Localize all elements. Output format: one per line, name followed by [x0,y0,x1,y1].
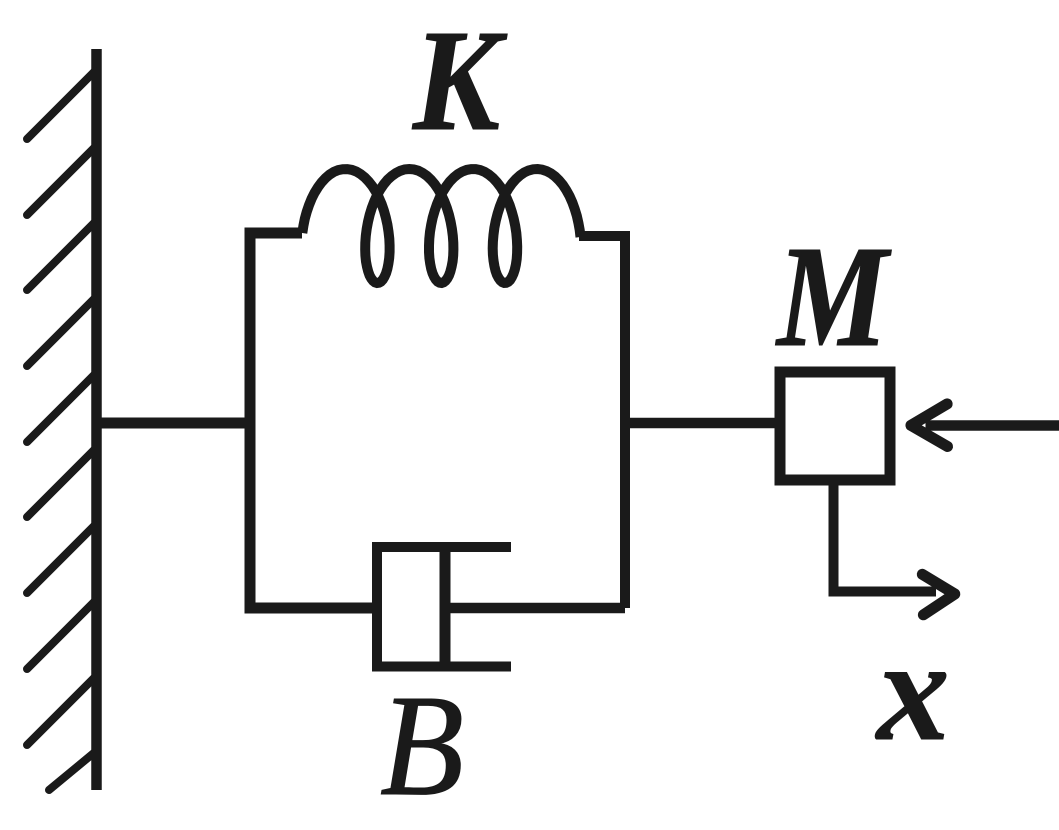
wire: wall to parallel frame [96,418,255,429]
svg-text:K: K [411,1,507,161]
svg-text:x: x [875,611,950,771]
wall hatching [27,71,95,790]
svg-text:M: M [775,217,891,377]
damper B piston [440,543,451,672]
force arrow head [911,404,948,447]
frame right rail [579,236,625,608]
displacement wire from mass [834,485,937,592]
displacement arrow head [922,574,955,615]
spring K coil [302,169,580,283]
frame left rail [250,233,381,608]
svg-text:B: B [380,666,464,826]
force arrow shaft [926,420,1059,431]
damper B cup [377,547,511,667]
wire: frame to mass [625,418,776,429]
wall [91,49,102,790]
mass M box [780,372,890,480]
damper B rod [445,603,625,614]
